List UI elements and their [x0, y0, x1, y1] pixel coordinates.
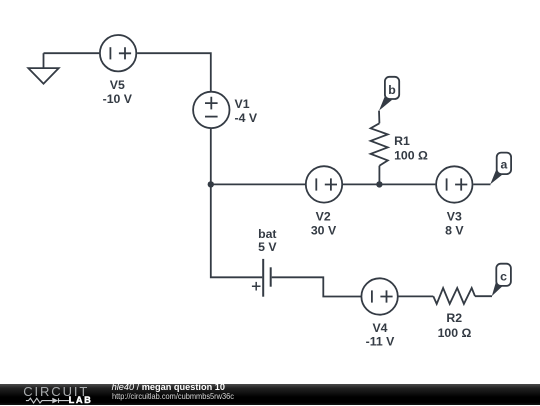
svg-text:V1: V1	[235, 97, 250, 111]
svg-text:V5: V5	[110, 78, 125, 92]
voltage source V1	[193, 92, 258, 128]
wire ground to V5	[44, 52, 100, 54]
svg-text:LAB: LAB	[69, 395, 93, 405]
terminal a	[490, 153, 511, 185]
terminal b	[379, 77, 399, 111]
svg-text:-11 V: -11 V	[366, 335, 396, 349]
battery bat	[252, 227, 277, 297]
wire V2 to V3 through node	[343, 183, 436, 185]
svg-text:100 Ω: 100 Ω	[394, 148, 428, 162]
svg-text:30 V: 30 V	[311, 223, 337, 237]
wire V5 to V1	[137, 53, 211, 91]
wire V1 to node	[210, 129, 212, 185]
svg-text:100 Ω: 100 Ω	[438, 326, 472, 340]
svg-text:V4: V4	[372, 321, 387, 335]
wire node down to battery	[211, 184, 262, 277]
node junction at R1 bottom	[376, 181, 382, 187]
logo resistor-diode	[26, 398, 69, 403]
ground	[28, 53, 58, 83]
svg-text:5 V: 5 V	[258, 240, 277, 254]
wire node to V2	[211, 183, 305, 185]
svg-text:8 V: 8 V	[445, 223, 464, 237]
resistor R1	[371, 123, 428, 165]
wire battery to V4	[272, 277, 361, 296]
voltage source V3	[436, 166, 472, 237]
svg-text:c: c	[500, 269, 507, 283]
resistor R2	[433, 288, 475, 340]
wire V3 to terminal a	[473, 183, 490, 185]
svg-text:R1: R1	[394, 134, 410, 148]
voltage source V5	[100, 35, 136, 106]
svg-text:b: b	[388, 83, 396, 97]
voltage source V2	[306, 166, 342, 237]
svg-text:-4 V: -4 V	[235, 111, 258, 125]
voltage source V4	[361, 278, 397, 348]
wire R1 bottom lead	[378, 166, 380, 185]
svg-text:-10 V: -10 V	[103, 92, 133, 106]
node junction at V1/V2/battery	[208, 181, 214, 187]
wire V4 to R2	[399, 295, 434, 297]
footer bar	[0, 384, 540, 406]
wire R2 to terminal c	[475, 295, 492, 297]
wire R1 top lead	[378, 111, 380, 124]
svg-text:a: a	[500, 158, 507, 172]
CircuitLab logo wordmark	[0, 384, 110, 406]
svg-text:R2: R2	[446, 311, 462, 325]
svg-text:V3: V3	[447, 210, 462, 224]
terminal c	[492, 264, 511, 296]
svg-text:V2: V2	[316, 210, 331, 224]
